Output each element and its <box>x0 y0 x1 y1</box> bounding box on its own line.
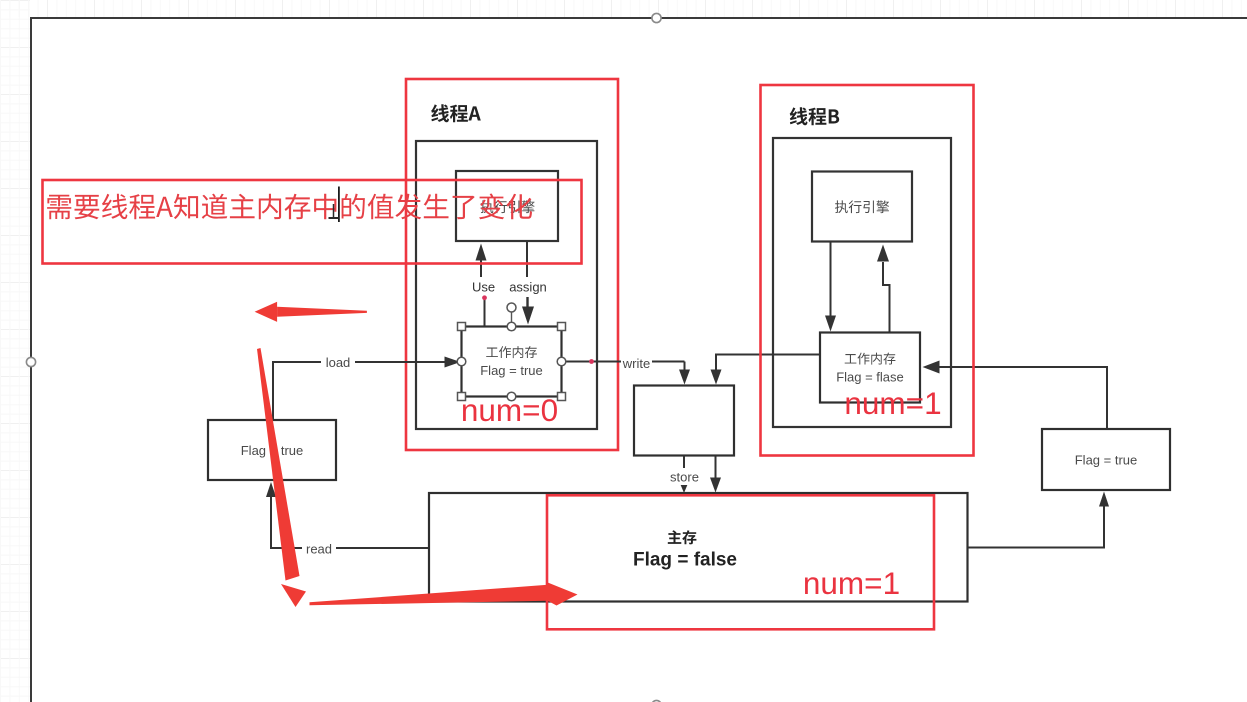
execution engine box B <box>812 172 912 242</box>
svg-text:num=1: num=1 <box>844 385 941 421</box>
main memory box 主存 <box>429 493 968 602</box>
svg-text:Use: Use <box>472 280 495 295</box>
store buffer box <box>634 386 734 456</box>
wire rightflag to workmemB <box>923 361 1108 430</box>
left Flag=true box <box>208 420 336 480</box>
svg-text:Flag = true: Flag = true <box>1075 453 1138 468</box>
svg-text:write: write <box>622 356 650 371</box>
red endpoint dot write <box>589 359 594 364</box>
text caret <box>338 187 340 223</box>
selection handles workmemA <box>457 303 566 401</box>
label store <box>666 469 703 485</box>
red arrow diagonal down <box>257 348 306 607</box>
work memory box A <box>462 327 562 397</box>
wire mainmem to rightflag <box>968 492 1110 548</box>
svg-text:read: read <box>306 542 332 557</box>
wire workmemB to execB <box>877 245 890 333</box>
thread B inner rect <box>773 138 951 427</box>
wire use (workmemA to execA) <box>476 244 487 328</box>
label assign <box>509 280 547 295</box>
svg-text:load: load <box>326 355 351 370</box>
handle left-mid <box>26 357 35 366</box>
handle bottom-mid <box>652 700 661 702</box>
red overlay box on main memory <box>547 495 934 629</box>
wire read (mainmem to leftflag) <box>266 482 429 548</box>
work memory box B <box>820 333 920 403</box>
label read <box>302 541 336 557</box>
label write <box>621 356 652 372</box>
red annotation text <box>47 194 532 220</box>
label num=0 <box>461 392 558 428</box>
wire load (leftflag to workmemA) <box>273 357 461 421</box>
execution engine box A <box>456 171 558 241</box>
wire store-label arrow <box>679 456 689 494</box>
right Flag=true box <box>1042 429 1170 490</box>
red annotation box <box>43 180 582 264</box>
I-beam cursor <box>329 204 339 218</box>
wire workmemB to store box <box>711 355 821 385</box>
svg-text:Flag = false: Flag = false <box>633 550 737 571</box>
red arrow pointing left <box>255 302 367 322</box>
label load <box>321 355 355 371</box>
svg-text:assign: assign <box>509 280 547 295</box>
thread A red container <box>406 79 618 450</box>
svg-text:Flag = true: Flag = true <box>480 363 543 378</box>
wire execB to workmemB <box>825 242 836 332</box>
thread B red container <box>761 85 974 456</box>
label num=1 (main memory) <box>803 565 900 601</box>
handle top-mid <box>652 13 661 22</box>
wire assign (execA to workmemA) <box>522 242 534 325</box>
label 线程B <box>790 107 840 125</box>
red endpoint dot use <box>482 295 487 300</box>
svg-text:Flag = flase: Flag = flase <box>836 370 904 385</box>
label 线程A <box>431 104 481 122</box>
label num=1 (thread B) <box>844 385 941 421</box>
label Use <box>472 280 495 295</box>
wire write (workmemA to store box) <box>562 362 691 385</box>
red arrow pointing right <box>310 583 578 606</box>
svg-text:store: store <box>670 470 699 485</box>
svg-text:num=1: num=1 <box>803 565 900 601</box>
thread A inner rect <box>416 141 597 429</box>
wire store box to main memory <box>710 456 721 493</box>
